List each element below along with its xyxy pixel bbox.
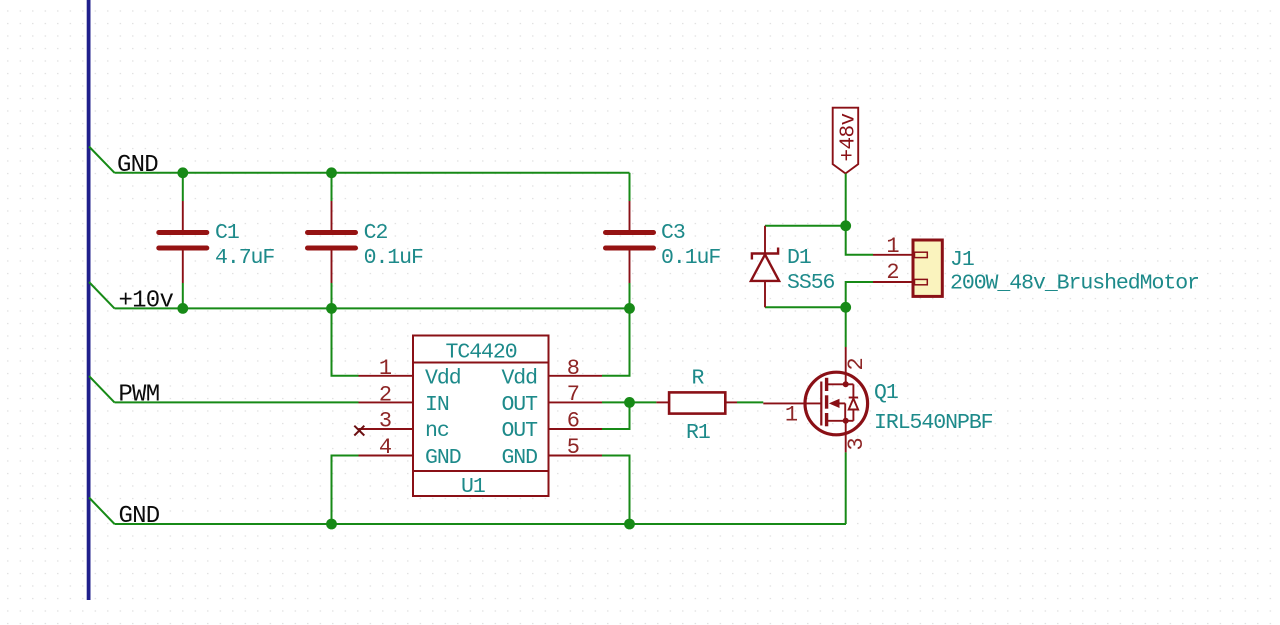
wire Q1 source down to GND [845, 452, 847, 524]
svg-text:IRL540NPBF: IRL540NPBF [874, 411, 993, 435]
U1 pin 2 [359, 383, 414, 408]
wire C2 top stub [331, 173, 333, 201]
wire bottom to D1 anode [765, 306, 846, 308]
svg-text:J1: J1 [950, 248, 974, 272]
svg-text:1: 1 [379, 356, 392, 381]
sheet border line (decorative) [87, 0, 91, 600]
wire pin4 GND drop [332, 456, 359, 525]
C3 reference and value text [661, 221, 720, 270]
svg-text:+48v: +48v [838, 113, 861, 161]
svg-text:C3: C3 [661, 221, 685, 245]
U1 pin 3 [359, 409, 414, 434]
capacitor C1 [159, 201, 207, 283]
junction at +10v/C2 [326, 303, 337, 314]
wire pin5 GND drop [602, 456, 630, 525]
diode D1 SS56 [751, 226, 779, 307]
svg-text:6: 6 [567, 409, 580, 434]
wire GND top horizontal [115, 172, 630, 174]
wire C1 bottom stub [182, 283, 184, 308]
svg-text:SS56: SS56 [787, 271, 835, 295]
svg-text:GND: GND [119, 503, 160, 530]
wire PWM to pin2 IN [115, 401, 359, 403]
svg-text:2: 2 [844, 357, 869, 370]
svg-text:5: 5 [567, 435, 580, 460]
net label GND (top) [89, 147, 158, 180]
junction OUT node [624, 397, 635, 408]
svg-text:U1: U1 [461, 475, 485, 499]
U1 pin 8 [549, 356, 603, 381]
svg-text:R: R [692, 367, 705, 391]
net label GND (bottom) [89, 498, 160, 531]
U1 pin name labels [425, 367, 538, 471]
svg-text:3: 3 [379, 409, 392, 434]
net label PWM [89, 376, 159, 409]
wire C1 top stub [182, 173, 184, 201]
wire +48v down [845, 174, 847, 226]
svg-text:200W_48v_BrushedMotor: 200W_48v_BrushedMotor [950, 272, 1199, 296]
svg-text:GND: GND [117, 152, 158, 179]
svg-text:R1: R1 [686, 421, 710, 445]
wire +10v to pin1 Vdd [332, 308, 359, 375]
U1 pin 7 [549, 382, 603, 407]
wire C3 top drop [629, 173, 631, 201]
junction GND/pin4 [326, 519, 337, 530]
svg-text:GND: GND [425, 446, 461, 470]
junction +48v node top [840, 220, 851, 231]
svg-text:7: 7 [567, 382, 580, 407]
no-connect cross on pin 3 [354, 426, 364, 436]
wire junction to J1 pin1 [846, 226, 873, 255]
wire OUT junction to R1 [630, 401, 657, 403]
wire OUT junction to pin6 [602, 402, 630, 429]
wire pin7 OUT to junction [602, 401, 630, 403]
wire J1 pin2 to junction [846, 282, 873, 307]
U1 pin 5 [549, 435, 603, 460]
J1 pin 2 [873, 260, 913, 285]
power flag +48v [833, 108, 861, 174]
svg-text:1: 1 [886, 234, 899, 259]
wire Q1 drain up [845, 307, 847, 347]
svg-text:OUT: OUT [501, 419, 538, 443]
svg-text:2: 2 [886, 260, 899, 285]
Q1 source pin 3 [844, 435, 869, 453]
junction at +10v/C3 [624, 303, 635, 314]
svg-text:4: 4 [379, 435, 392, 460]
U1 pin 6 [549, 409, 603, 434]
svg-text:+10v: +10v [119, 288, 174, 315]
wire GND bottom horizontal [115, 523, 847, 525]
capacitor C3 [606, 201, 654, 283]
junction motor node bottom [840, 302, 851, 313]
C1 reference and value text [215, 221, 274, 270]
junction at +10v/C1 [177, 303, 188, 314]
svg-text:TC4420: TC4420 [446, 341, 517, 365]
connector J1 [913, 240, 942, 296]
wire +10v to pin8 Vdd [602, 308, 630, 375]
svg-text:3: 3 [844, 437, 869, 450]
svg-text:Q1: Q1 [874, 381, 898, 405]
junction at GND/C2 [326, 167, 337, 178]
svg-text:Vdd: Vdd [425, 367, 461, 391]
wire C2 bottom stub [331, 283, 333, 308]
svg-text:0.1uF: 0.1uF [661, 246, 720, 270]
capacitor C2 [308, 201, 356, 283]
svg-text:PWM: PWM [118, 382, 159, 409]
C2 reference and value text [364, 221, 423, 270]
svg-text:C1: C1 [215, 221, 239, 245]
svg-text:0.1uF: 0.1uF [364, 246, 423, 270]
svg-text:2: 2 [379, 383, 392, 408]
svg-text:4.7uF: 4.7uF [215, 246, 274, 270]
resistor R1 [656, 392, 737, 413]
junction GND/pin5 [624, 519, 635, 530]
junction at GND/C1 [177, 167, 188, 178]
U1 pin 1 [359, 356, 414, 381]
wire C3 bottom stub [629, 283, 631, 308]
IC U1 TC4420 body [413, 336, 549, 497]
svg-text:D1: D1 [787, 246, 811, 270]
wire top to D1 cathode [765, 225, 846, 227]
svg-text:IN: IN [425, 393, 449, 417]
svg-text:OUT: OUT [501, 393, 538, 417]
J1 pin 1 [873, 234, 913, 259]
wire +10v horizontal [115, 307, 630, 309]
svg-text:GND: GND [501, 446, 537, 470]
svg-text:Vdd: Vdd [501, 367, 537, 391]
Q1 drain pin 2 [844, 347, 869, 373]
net label +10v [89, 282, 173, 315]
svg-text:8: 8 [567, 356, 580, 381]
U1 pin 4 [359, 435, 414, 460]
transistor Q1 IRL540NPBF [763, 372, 867, 435]
svg-text:1: 1 [785, 403, 798, 428]
svg-text:C2: C2 [364, 221, 388, 245]
svg-text:nc: nc [425, 419, 449, 443]
wire R1 to Q1 gate [737, 401, 763, 403]
